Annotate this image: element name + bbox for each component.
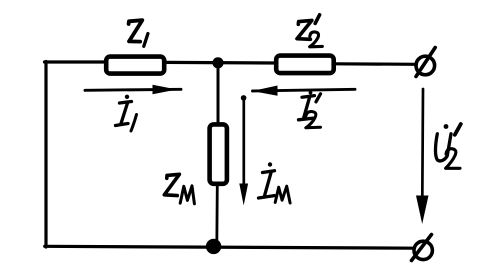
junction node bottom xyxy=(206,239,221,254)
resistor Z2' xyxy=(276,56,334,74)
wire bottom rail xyxy=(45,246,414,248)
current arrow IM xyxy=(239,95,248,205)
current arrow I1 xyxy=(85,85,181,94)
label ZM xyxy=(164,174,194,204)
terminal bottom (circle with slash) xyxy=(412,235,433,261)
resistor ZM xyxy=(210,124,227,183)
wire junction to ZM xyxy=(217,61,220,124)
label IM xyxy=(259,162,291,203)
current arrow I2' xyxy=(252,86,355,96)
wire top rail right segment xyxy=(335,62,417,66)
wire left vertical side xyxy=(44,62,47,248)
wire top rail left segment xyxy=(45,60,107,63)
label I1 xyxy=(116,95,137,131)
voltage arrow U2' xyxy=(416,89,429,224)
label I2' xyxy=(299,91,321,128)
label Z2' xyxy=(297,15,322,47)
wire top rail middle segment xyxy=(164,61,277,65)
terminal top (circle with slash) xyxy=(416,48,435,77)
label U2' xyxy=(435,124,460,168)
junction node top xyxy=(212,57,223,68)
resistor Z1 xyxy=(106,57,164,74)
wire ZM to bottom rail xyxy=(215,184,218,247)
label Z1 xyxy=(129,20,148,46)
